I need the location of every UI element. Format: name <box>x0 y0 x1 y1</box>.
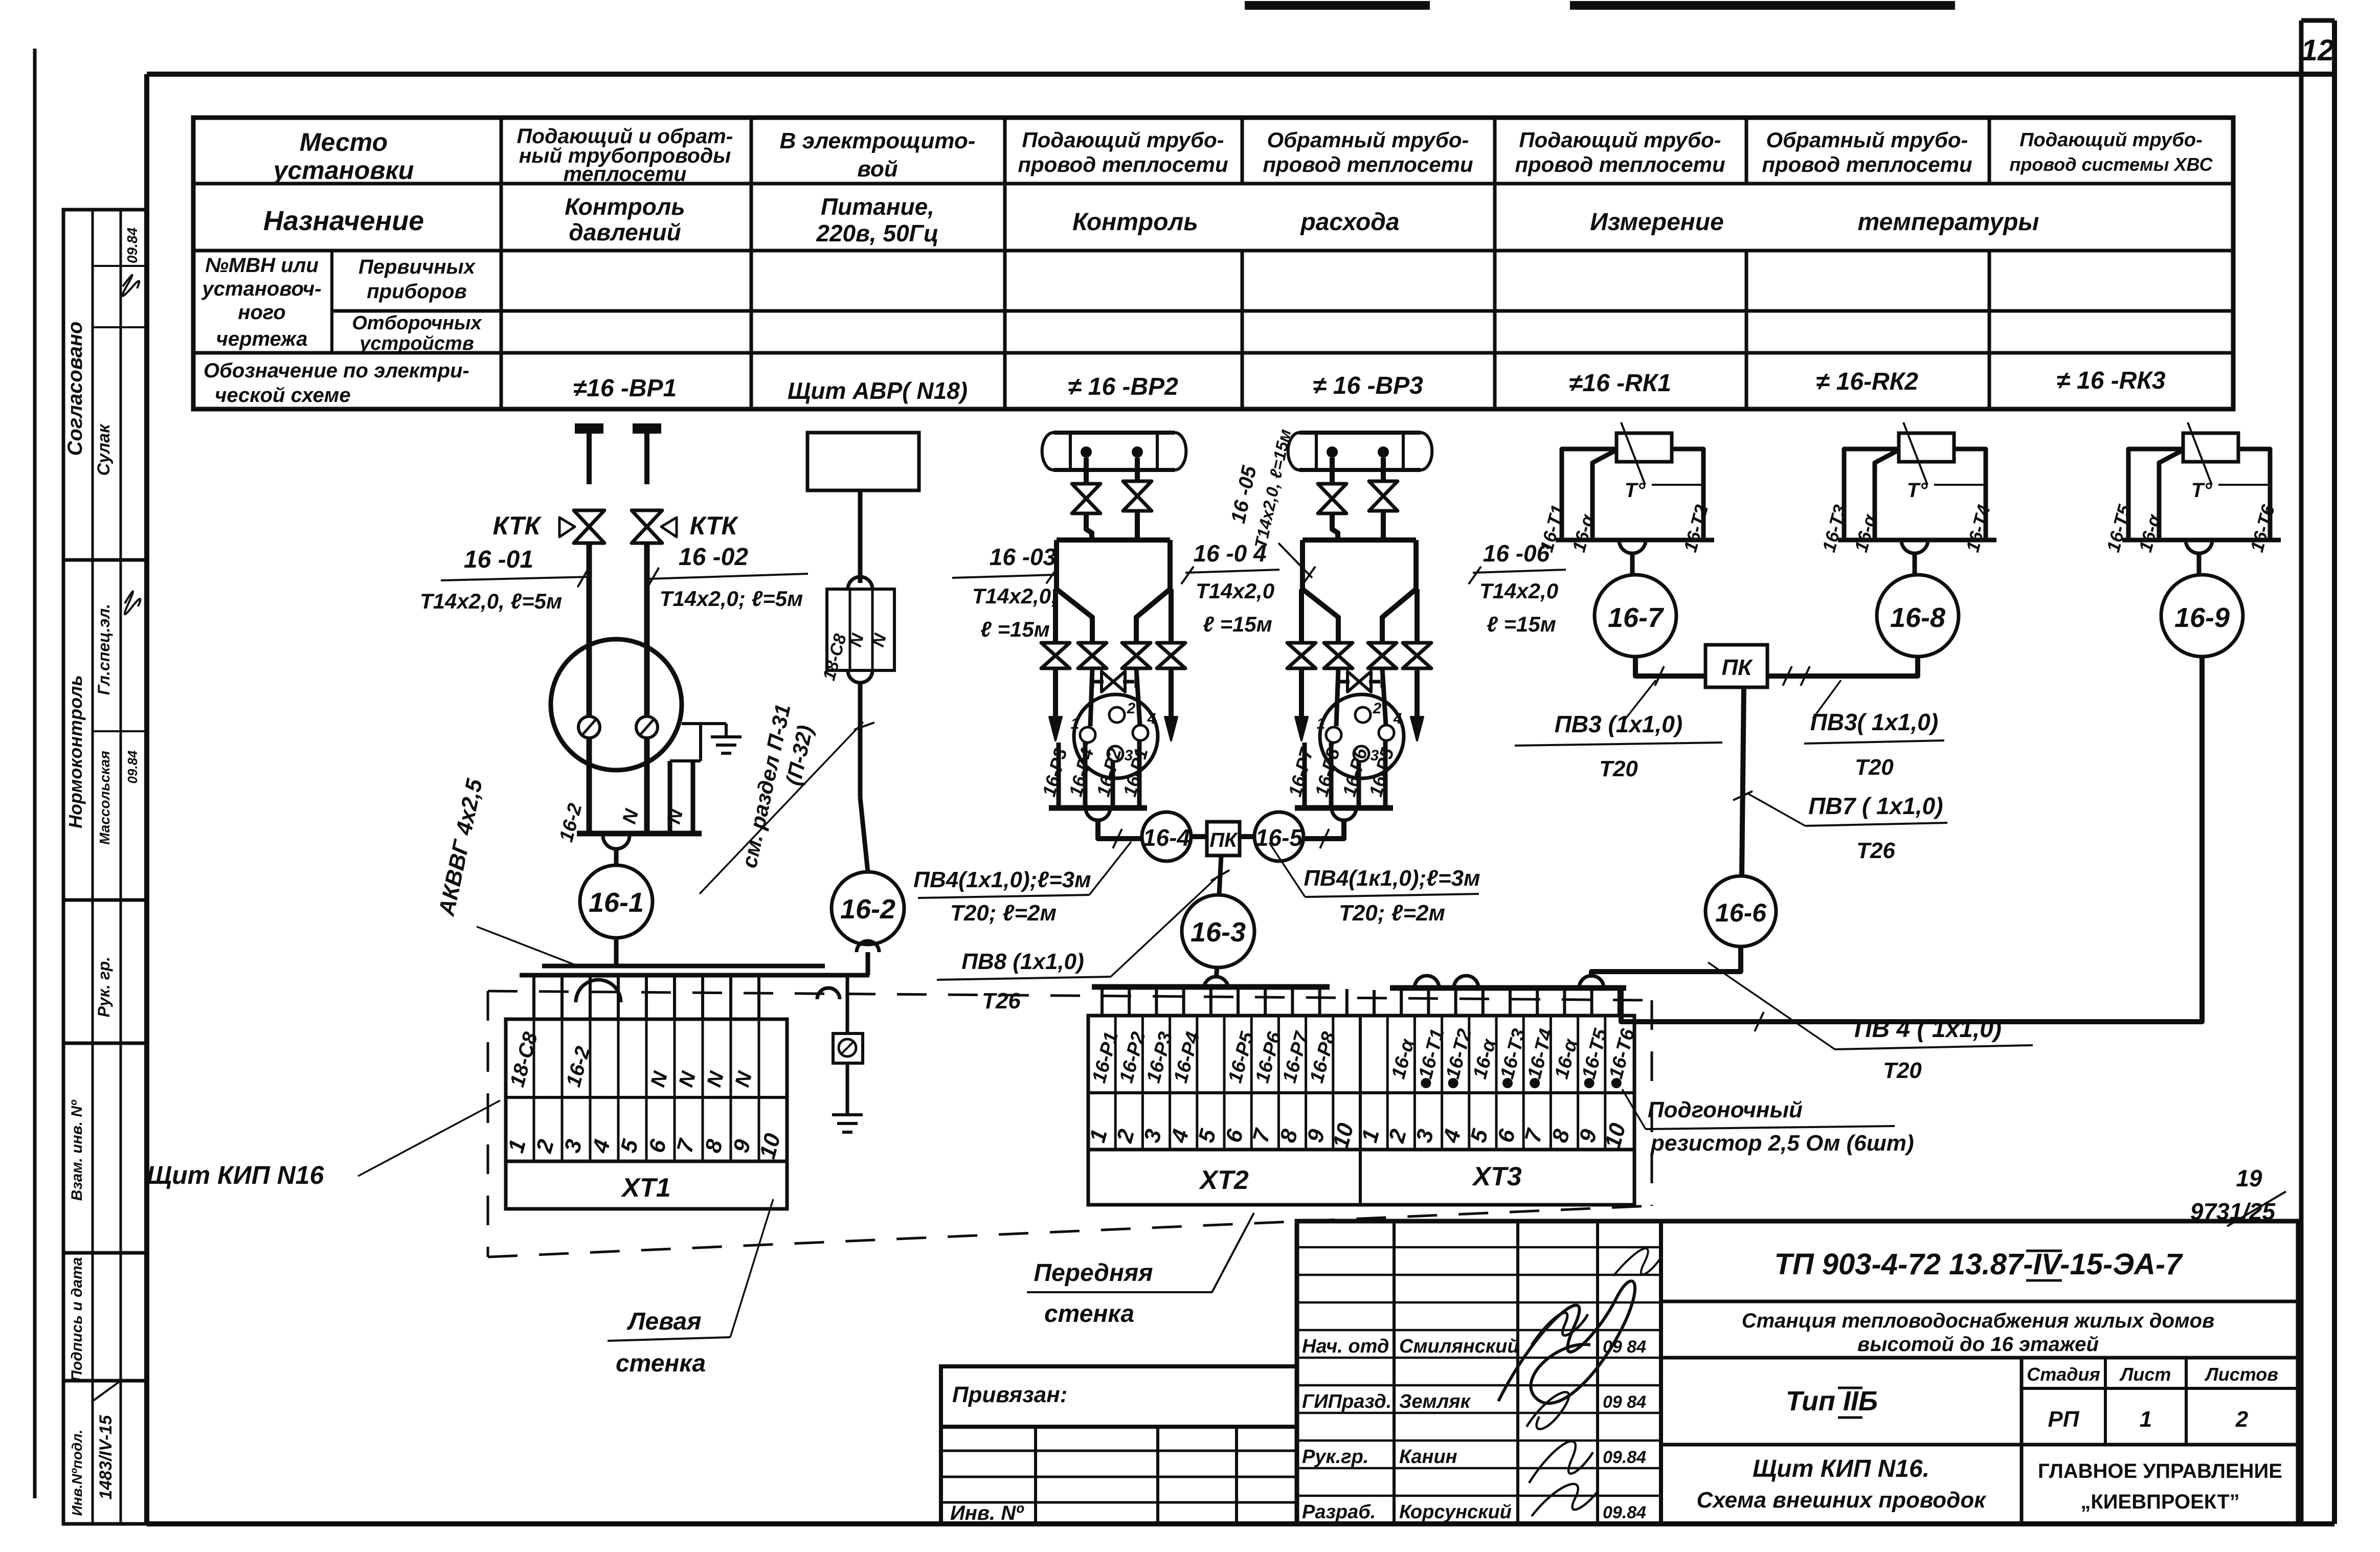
manifold valve 1 <box>1287 643 1316 656</box>
svg-text:теплосети: теплосети <box>564 162 687 186</box>
terminal strip XT1 <box>506 1019 787 1161</box>
base line <box>2122 538 2281 543</box>
svg-text:установоч-: установоч- <box>201 278 321 300</box>
manifold valve 2 <box>1078 643 1107 656</box>
terminal with slash 1 <box>578 716 600 738</box>
svg-text:Щит КИП N16: Щит КИП N16 <box>147 1161 325 1189</box>
svg-text:ℓ =15м: ℓ =15м <box>1487 612 1556 636</box>
svg-text:1483/IV-15: 1483/IV-15 <box>96 1414 116 1499</box>
svg-text:Сулак: Сулак <box>94 423 114 476</box>
manifold valve 4 <box>1157 643 1185 656</box>
svg-text:Нормоконтроль: Нормоконтроль <box>65 675 86 828</box>
svg-text:1: 1 <box>2140 1407 2152 1432</box>
leg into transmitter 1 <box>1336 668 1338 726</box>
wire earthing box to ground <box>846 1063 849 1115</box>
leader резистор to dot <box>1622 1089 1646 1129</box>
wire to earthing box <box>846 975 849 1033</box>
terminal bus under gauge <box>577 831 702 837</box>
bump under transmitter bus <box>1086 808 1110 820</box>
leader see section <box>700 722 863 894</box>
wire 16-9 long run to XT3 <box>1621 657 2202 1022</box>
neutral branch wires <box>699 724 702 761</box>
svg-text:Обозначение по электри-: Обозначение по электри- <box>204 359 469 382</box>
svg-text:16 -01: 16 -01 <box>464 546 533 573</box>
manifold valve 3 <box>1368 643 1397 656</box>
svg-text:Измерение: Измерение <box>1590 209 1724 236</box>
process pipe <box>1299 431 1421 435</box>
leg into transmitter 2 <box>1382 668 1386 725</box>
drain arrow 2 <box>1414 668 1420 718</box>
svg-text:Земляк: Земляк <box>1399 1391 1471 1412</box>
svg-text:провод системы ХВС: провод системы ХВС <box>2009 154 2213 175</box>
svg-text:Подпись и дата: Подпись и дата <box>69 1257 85 1381</box>
svg-text:Взам. инв. Nº: Взам. инв. Nº <box>69 1099 85 1201</box>
svg-text:провод теплосети: провод теплосети <box>1515 152 1725 176</box>
svg-text:09 84: 09 84 <box>1603 1337 1646 1357</box>
leader PV7 <box>1748 794 1805 826</box>
svg-text:ХТ2: ХТ2 <box>1198 1165 1248 1195</box>
svg-text:Т°: Т° <box>1625 479 1646 502</box>
flow transmitter circle <box>1074 694 1158 778</box>
svg-text:Щит АВР( N18): Щит АВР( N18) <box>788 377 968 404</box>
svg-text:Назначение: Назначение <box>263 206 424 236</box>
svg-text:ПВ7 ( 1х1,0): ПВ7 ( 1х1,0) <box>1808 793 1943 819</box>
cable entry bump XT1 <box>576 980 621 1002</box>
svg-text:Питание,: Питание, <box>821 193 934 220</box>
svg-text:ℓ =15м: ℓ =15м <box>980 617 1050 641</box>
svg-text:≠16 -RК1: ≠16 -RК1 <box>1569 370 1671 397</box>
svg-text:РП: РП <box>2048 1407 2080 1432</box>
svg-text:≠ 16 -ВР3: ≠ 16 -ВР3 <box>1313 372 1423 399</box>
svg-text:ПВ3( 1х1,0): ПВ3( 1х1,0) <box>1810 709 1938 735</box>
svg-text:09.84: 09.84 <box>125 750 140 784</box>
svg-text:устройств: устройств <box>358 333 474 354</box>
wire to instrument <box>2197 553 2202 575</box>
svg-text:давлений: давлений <box>569 219 681 245</box>
wire PK to 16-5 <box>1240 834 1254 839</box>
terminal strip XT2/XT3 body <box>1088 1016 1634 1150</box>
XT1 tick wires <box>532 975 535 1019</box>
svg-text:4: 4 <box>1393 710 1402 727</box>
svg-text:приборов: приборов <box>367 280 467 303</box>
svg-text:16 -02: 16 -02 <box>679 544 748 571</box>
manifold valve 3 <box>1122 643 1151 656</box>
svg-text:Инв. Nº: Инв. Nº <box>950 1502 1024 1524</box>
wire to instrument <box>1913 553 1917 575</box>
svg-text:ХТ3: ХТ3 <box>1471 1162 1521 1191</box>
bump under 16-2 <box>857 941 879 952</box>
tap wire 2 <box>1381 458 1386 482</box>
impulse line 2 <box>1381 509 1386 540</box>
bus above XT2 <box>1092 984 1330 990</box>
svg-text:Смилянский: Смилянский <box>1399 1336 1519 1357</box>
leader Левая стенка <box>730 1199 773 1337</box>
drain arrow 2 <box>1169 668 1174 718</box>
svg-text:Станция тепловодоснабжения жил: Станция тепловодоснабжения жилых домов <box>1742 1310 2215 1332</box>
wire cable marker to 16-2 <box>858 683 863 798</box>
instrument circle 16-1 <box>580 865 653 938</box>
condensing vessel <box>1057 537 1170 543</box>
svg-text:ПВ 4 ( 1х1,0): ПВ 4 ( 1х1,0) <box>1854 1016 2002 1043</box>
svg-text:16-2: 16-2 <box>840 894 895 925</box>
svg-text:Подающий трубо-: Подающий трубо- <box>2019 129 2203 151</box>
strip XT2 XT3 name boxes <box>1088 1150 1634 1205</box>
sidebar signature squiggle <box>122 275 139 296</box>
base line <box>1838 538 1996 543</box>
leg into transmitter 2 <box>1136 668 1140 725</box>
people block rows <box>1297 1246 1661 1249</box>
wire PK down to 16-3 <box>1219 856 1221 895</box>
svg-text:≠ 16-RК2: ≠ 16-RК2 <box>1816 368 1918 395</box>
svg-text:16-5: 16-5 <box>1255 824 1303 851</box>
leader PV3 left <box>1624 680 1656 721</box>
svg-text:Т14х2,0: Т14х2,0 <box>1196 579 1274 603</box>
leader PV8 <box>1111 872 1222 977</box>
svg-text:09 84: 09 84 <box>1603 1392 1646 1412</box>
equalizing valve <box>1338 680 1350 684</box>
bump under transmitter bus <box>1332 808 1356 820</box>
svg-text:16-8: 16-8 <box>1890 602 1945 633</box>
svg-text:Левая: Левая <box>627 1308 702 1335</box>
svg-text:Стадия: Стадия <box>2027 1364 2100 1385</box>
leader PV4 right <box>1269 843 1305 897</box>
bump above XT3 col9 <box>1579 976 1604 988</box>
svg-text:ПВ4(1х1,0);ℓ=3м: ПВ4(1х1,0);ℓ=3м <box>913 867 1091 892</box>
svg-text:≠ 16 -ВР2: ≠ 16 -ВР2 <box>1068 373 1178 400</box>
svg-text:Инв.Nºподл.: Инв.Nºподл. <box>69 1430 85 1516</box>
signatures squiggle big <box>1498 1281 1635 1403</box>
pointer line through head <box>1903 422 1927 485</box>
wire ABP to cable marker <box>858 490 863 583</box>
svg-text:Передняя: Передняя <box>1034 1259 1153 1287</box>
transmitter terminals <box>1326 727 1341 743</box>
manifold valve 4 <box>1403 643 1431 656</box>
svg-text:Контроль: Контроль <box>565 193 685 220</box>
svg-text:Т20: Т20 <box>1855 755 1894 780</box>
svg-text:Привязан:: Привязан: <box>952 1382 1067 1407</box>
junction box PK right <box>1705 645 1767 687</box>
resistance thermometer head <box>1616 433 1672 462</box>
leader PV4 left <box>1089 842 1131 895</box>
wire terminal1 down <box>587 738 592 834</box>
paper binding edge line left <box>33 49 37 1498</box>
svg-text:Т°: Т° <box>2191 479 2212 502</box>
resistance thermometer head <box>2183 433 2238 462</box>
svg-text:расхода: расхода <box>1299 209 1399 236</box>
svg-text:Подающий трубо-: Подающий трубо- <box>1519 128 1721 152</box>
svg-text:09.84: 09.84 <box>124 228 140 263</box>
leader PV3 right <box>1813 680 1841 718</box>
vessel outer drops <box>1299 589 1304 644</box>
svg-text:Т14х2,0, ℓ=5м: Т14х2,0, ℓ=5м <box>420 589 562 613</box>
svg-text:Первичных: Первичных <box>358 256 476 278</box>
svg-text:1: 1 <box>1071 715 1080 732</box>
svg-text:стенка: стенка <box>616 1350 706 1377</box>
svg-text:„КИЕВПРОЕКТ”: „КИЕВПРОЕКТ” <box>2080 1491 2239 1513</box>
bus above XT3 <box>1390 985 1626 991</box>
instrument circle 16-7 <box>1595 575 1676 657</box>
leg into transmitter 1 <box>1090 668 1092 726</box>
svg-text:Рук.гр.: Рук.гр. <box>1302 1446 1368 1468</box>
svg-text:Схема внешних проводок: Схема внешних проводок <box>1696 1488 1987 1513</box>
instrument circle 16-5 <box>1254 812 1304 861</box>
svg-text:ного: ного <box>238 301 285 324</box>
svg-text:16-1: 16-1 <box>589 887 644 918</box>
svg-text:Рук. гр.: Рук. гр. <box>95 957 113 1018</box>
svg-text:провод теплосети: провод теплосети <box>1762 152 1972 176</box>
svg-text:КТК: КТК <box>690 511 739 540</box>
svg-text:09.84: 09.84 <box>1603 1448 1646 1467</box>
tap dots <box>1081 446 1092 458</box>
resistance thermometer head <box>1899 433 1954 462</box>
sidebar signature squiggle 2 <box>125 591 141 614</box>
terminal strip XT1 name box <box>506 1161 787 1209</box>
svg-text:Т26: Т26 <box>1856 838 1895 863</box>
wire tap1 to gauge <box>587 542 592 716</box>
svg-text:№МВН или: №МВН или <box>205 254 319 277</box>
equalizing valve <box>1092 680 1104 684</box>
instrument circle 16-2 <box>832 872 904 944</box>
base line <box>1556 538 1714 543</box>
process pipe <box>1053 431 1175 435</box>
wire bump to 16-1 <box>614 849 619 865</box>
svg-text:2: 2 <box>1373 700 1382 717</box>
bump under thermometer <box>1901 540 1928 553</box>
cable marker bump bottom <box>848 670 872 683</box>
XT2 tick wires <box>1101 989 1104 1016</box>
tap valve 1 <box>1072 484 1101 499</box>
pressure gauge unit circle 16-2 sensors <box>551 639 682 770</box>
impulse line 1 <box>1086 512 1092 540</box>
junction box PK middle <box>1207 822 1240 856</box>
svg-text:Нач. отд: Нач. отд <box>1302 1336 1389 1357</box>
svg-text:вой: вой <box>857 156 897 182</box>
manifold valve 1 <box>1041 643 1070 656</box>
tap wire 2 <box>1135 458 1140 482</box>
thermometer pocket box <box>1562 449 1616 538</box>
vessel outer drops <box>1053 589 1058 644</box>
svg-text:16-6: 16-6 <box>1715 898 1767 927</box>
svg-text:16 -03: 16 -03 <box>990 544 1057 570</box>
wire 16-8 to PK <box>1767 657 1918 676</box>
condensing vessel <box>1303 537 1416 543</box>
thermometer pocket box <box>1844 449 1899 538</box>
svg-text:Отборочных: Отборочных <box>352 312 482 334</box>
flow transmitter circle <box>1320 694 1404 778</box>
wire 16-7 to PK <box>1635 657 1705 676</box>
title block Привязан box <box>941 1366 1297 1427</box>
svg-text:Обратный трубо-: Обратный трубо- <box>1766 128 1968 152</box>
svg-text:ПК: ПК <box>1722 655 1754 680</box>
bump under thermometer <box>2186 540 2212 553</box>
electro panel box (ABP) <box>807 433 919 490</box>
svg-text:16-9: 16-9 <box>2174 602 2230 633</box>
leader AKVVG <box>477 927 582 968</box>
svg-text:резистор 2,5 Ом (6шт): резистор 2,5 Ом (6шт) <box>1650 1131 1914 1156</box>
instrument circle 16-8 <box>1877 575 1959 657</box>
svg-text:19: 19 <box>2236 1165 2262 1191</box>
instrument circle 16-6 <box>1705 876 1776 947</box>
drain arrow 1 <box>1299 668 1304 718</box>
pressure tap symbol 1 <box>575 423 603 434</box>
impulse line 2 <box>1135 509 1140 540</box>
sheet edge marks top <box>1245 1 1430 10</box>
XT3 tick wires <box>1373 990 1376 1016</box>
leader PV4 bottom <box>1708 962 1835 1049</box>
valve KTK 2 <box>632 510 662 527</box>
wire terminal2 down <box>644 738 650 834</box>
svg-text:установки: установки <box>272 156 414 185</box>
wire tap2 to gauge <box>644 542 650 716</box>
instrument circle 16-4 <box>1142 812 1191 861</box>
terminal with slash 2 <box>636 716 658 738</box>
valve KTK 1 <box>574 510 604 527</box>
wire left manifold to 16-4 <box>1098 820 1142 839</box>
svg-text:Гл.спец.эл.: Гл.спец.эл. <box>95 604 113 695</box>
drain arrow 1 <box>1053 668 1058 718</box>
tap valve 2 <box>1369 481 1398 496</box>
svg-text:Т20: Т20 <box>1599 756 1638 781</box>
svg-text:ПВ8 (1х1,0): ПВ8 (1х1,0) <box>961 949 1084 974</box>
transmitter terminals <box>1080 727 1095 743</box>
bump under thermometer <box>1619 540 1646 553</box>
wire 16-4 to PK <box>1191 834 1207 839</box>
svg-text:ПВ4(1к1,0);ℓ=3м: ПВ4(1к1,0);ℓ=3м <box>1304 866 1480 891</box>
title block main outline <box>1297 1221 2298 1524</box>
cable entry bump XT1 right <box>817 988 840 999</box>
earthing box with circle <box>833 1033 863 1063</box>
wire right manifold to 16-5 <box>1304 820 1344 839</box>
cable bump under gauge bus <box>603 836 630 849</box>
svg-text:Т20: Т20 <box>1883 1058 1922 1083</box>
cable marker bump top <box>848 577 872 589</box>
svg-text:ХТ1: ХТ1 <box>620 1173 670 1203</box>
svg-text:09.84: 09.84 <box>1603 1503 1646 1522</box>
pointer line through head <box>1621 422 1645 485</box>
svg-text:высотой до 16 этажей: высотой до 16 этажей <box>1857 1333 2099 1356</box>
cable marker box 18-C8 <box>827 589 894 670</box>
svg-text:Т°: Т° <box>1907 479 1928 502</box>
svg-text:2: 2 <box>2235 1407 2249 1432</box>
svg-text:Подающий трубо-: Подающий трубо- <box>1022 128 1224 152</box>
svg-text:2: 2 <box>1127 700 1136 717</box>
svg-text:Т14х2,0;: Т14х2,0; <box>972 584 1058 608</box>
svg-text:Согласовано: Согласовано <box>64 322 86 456</box>
svg-text:стенка: стенка <box>1044 1300 1134 1328</box>
svg-text:220в, 50Гц: 220в, 50Гц <box>816 220 938 246</box>
ground symbol under earthing box <box>832 1113 863 1116</box>
svg-text:КТК: КТК <box>493 511 542 540</box>
bump above XT3 col5 <box>1454 976 1478 988</box>
svg-text:16-4: 16-4 <box>1143 824 1190 851</box>
drawing frame border <box>147 72 2334 77</box>
svg-text:ТП 903-4-72 13.87-IV-15-ЭА-7: ТП 903-4-72 13.87-IV-15-ЭА-7 <box>1775 1248 2184 1281</box>
svg-text:16-3: 16-3 <box>1191 917 1246 948</box>
tap valve 1 <box>1318 484 1346 499</box>
svg-text:Т20; ℓ=2м: Т20; ℓ=2м <box>1339 901 1445 926</box>
manifold valve 2 <box>1324 643 1353 656</box>
svg-text:Щит КИП N16.: Щит КИП N16. <box>1753 1455 1929 1482</box>
impulse line 1 <box>1332 512 1338 540</box>
svg-text:Лист: Лист <box>2119 1364 2171 1385</box>
svg-text:Разраб.: Разраб. <box>1302 1501 1376 1523</box>
XT3 resistor dots <box>1421 1078 1431 1088</box>
bump above XT2 <box>1204 977 1228 989</box>
svg-text:16-7: 16-7 <box>1608 602 1665 633</box>
svg-text:Листов: Листов <box>2204 1364 2278 1385</box>
instrument circle 16-3 <box>1182 895 1254 968</box>
svg-text:4: 4 <box>1147 710 1156 727</box>
leader Щит КИП N16 <box>358 1100 500 1176</box>
svg-text:Тип IIБ: Тип IIБ <box>1786 1386 1878 1416</box>
svg-text:ПК: ПК <box>1209 829 1238 851</box>
thermometer pocket box <box>2128 449 2183 538</box>
transmitter wires down <box>1303 743 1307 808</box>
tap wire 1 <box>1084 458 1089 484</box>
tap valve 2 <box>1123 481 1152 496</box>
pressure tap symbol 2 <box>633 423 661 434</box>
dashed enclosure Щит КИП N16 <box>488 991 1652 1000</box>
svg-text:1: 1 <box>1317 715 1326 732</box>
sidebar stamp table <box>63 210 147 1524</box>
svg-text:≠ 16 -RК3: ≠ 16 -RК3 <box>2056 367 2166 394</box>
svg-text:провод теплосети: провод теплосети <box>1263 152 1473 176</box>
wire 16-6 to XT3 <box>1591 947 1741 978</box>
ground branch from gauge <box>682 722 726 725</box>
sheet number box top right <box>2301 18 2334 23</box>
transmitter wires down <box>1057 743 1061 808</box>
svg-text:Контроль: Контроль <box>1072 209 1198 236</box>
tap wire 1 <box>1330 458 1335 484</box>
wire 16-3 to XT2 <box>1216 968 1217 978</box>
svg-text:ГЛАВНОЕ УПРАВЛЕНИЕ: ГЛАВНОЕ УПРАВЛЕНИЕ <box>2038 1460 2282 1482</box>
terminal bus above XT1 <box>542 964 825 969</box>
svg-text:Подгоночный: Подгоночный <box>1648 1097 1803 1122</box>
svg-text:12: 12 <box>2301 34 2334 67</box>
svg-text:температуры: температуры <box>1858 209 2039 236</box>
tap dots <box>1327 446 1338 458</box>
terminal bus under transmitter <box>1049 805 1147 811</box>
svg-text:Канин: Канин <box>1399 1446 1457 1468</box>
stage table Стадия Лист Листов <box>2020 1358 2024 1524</box>
svg-text:ческой схеме: ческой схеме <box>215 384 351 407</box>
svg-text:чертежа: чертежа <box>216 328 308 350</box>
svg-text:Корсунский: Корсунский <box>1399 1501 1512 1523</box>
wire PK down to 16-6 <box>1742 687 1744 876</box>
svg-text:Т26: Т26 <box>982 988 1021 1014</box>
svg-text:ℓ =15м: ℓ =15м <box>1203 612 1272 636</box>
svg-text:ПВ3 (1х1,0): ПВ3 (1х1,0) <box>1555 711 1682 737</box>
svg-text:ГИПразд.: ГИПразд. <box>1302 1391 1391 1412</box>
ground symbol right of gauge <box>725 724 728 737</box>
pointer line through head <box>2188 422 2212 485</box>
svg-text:≠16 -ВР1: ≠16 -ВР1 <box>573 375 677 402</box>
svg-text:Т14х2,0: Т14х2,0 <box>1479 579 1558 603</box>
people block columns <box>1393 1221 1396 1524</box>
terminal bus under transmitter <box>1295 805 1393 811</box>
signal table grid <box>193 118 2233 409</box>
instrument circle 16-9 <box>2161 575 2243 657</box>
wire 16-1 to XT1 bus <box>614 938 619 968</box>
table sub-divider MVN column <box>330 251 333 353</box>
svg-text:Т20; ℓ=2м: Т20; ℓ=2м <box>950 901 1057 926</box>
title block attachment grid <box>941 1427 1297 1524</box>
bump above XT3 col3 <box>1414 976 1439 988</box>
svg-text:В электрощито-: В электрощито- <box>780 128 976 153</box>
svg-text:Т14х2,0; ℓ=5м: Т14х2,0; ℓ=5м <box>660 587 803 611</box>
svg-text:Место: Место <box>300 128 388 156</box>
svg-text:Массольская: Массольская <box>97 751 113 845</box>
